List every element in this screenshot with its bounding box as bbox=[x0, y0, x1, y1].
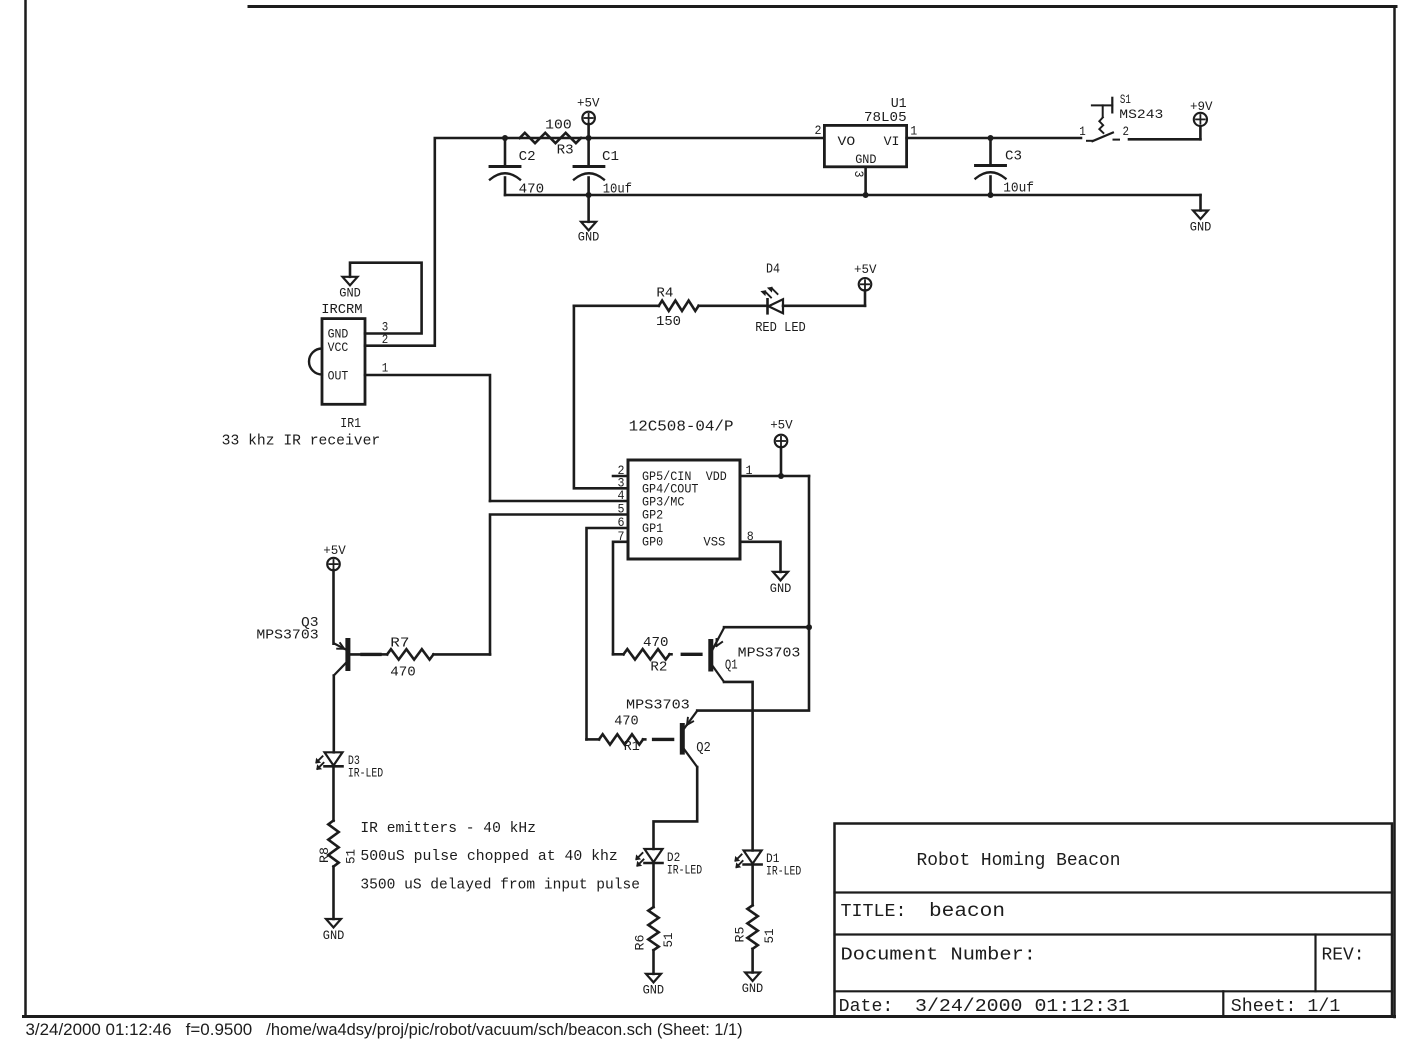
IR receiver IR1 IRCRM body bbox=[322, 319, 365, 405]
svg-text:OUT: OUT bbox=[328, 370, 349, 384]
svg-text:VSS: VSS bbox=[703, 536, 725, 550]
title block frame bbox=[835, 824, 1393, 1017]
node junction U1 pin3/ground rail bbox=[863, 192, 869, 198]
svg-text:GND: GND bbox=[855, 153, 876, 167]
wire R5 to ground bbox=[751, 949, 754, 973]
svg-text:IRCRM: IRCRM bbox=[321, 302, 362, 318]
svg-text:Sheet: 1/1: Sheet: 1/1 bbox=[1231, 997, 1341, 1017]
wire D1 to R5 bbox=[751, 865, 754, 906]
IC pin 2 stub bbox=[613, 475, 628, 478]
svg-text:R5: R5 bbox=[733, 927, 748, 943]
svg-text:500uS pulse chopped at 40 khz: 500uS pulse chopped at 40 khz bbox=[360, 849, 617, 865]
svg-text:1: 1 bbox=[910, 124, 917, 138]
wire VDD pin1 to +5V bbox=[740, 475, 809, 478]
svg-text:GND: GND bbox=[328, 328, 349, 342]
svg-text:GP2: GP2 bbox=[642, 509, 663, 523]
transistor Q1 MPS3703 bbox=[708, 642, 713, 670]
svg-text:1: 1 bbox=[1079, 125, 1086, 139]
diode D1 IR-LED bbox=[744, 851, 762, 864]
sheet border left bbox=[24, 0, 27, 1017]
svg-text:GP3/MC: GP3/MC bbox=[642, 495, 684, 509]
svg-text:12C508-04/P: 12C508-04/P bbox=[629, 419, 734, 436]
svg-text:7: 7 bbox=[618, 530, 625, 544]
resistor R4 bbox=[659, 301, 699, 311]
svg-text:VO: VO bbox=[838, 135, 856, 149]
wire +5V feed to Q1/Q2 emitters bbox=[697, 476, 809, 711]
svg-text:GND: GND bbox=[643, 984, 665, 998]
diode D4 RED LED bbox=[766, 299, 769, 313]
ground (IC VSS) bbox=[773, 572, 788, 581]
svg-text:GP0: GP0 bbox=[642, 536, 663, 550]
wire GP0 to R2 bbox=[613, 653, 624, 656]
svg-text:3500 uS delayed from input pul: 3500 uS delayed from input pulse bbox=[360, 877, 640, 893]
svg-text:TITLE:: TITLE: bbox=[841, 902, 907, 922]
power +5V (D4) bbox=[864, 290, 867, 306]
svg-text:C2: C2 bbox=[519, 149, 536, 165]
svg-text:Robot Homing Beacon: Robot Homing Beacon bbox=[917, 851, 1121, 871]
svg-text:51: 51 bbox=[661, 932, 676, 947]
wire Q2 collector to D2 bbox=[654, 767, 698, 849]
svg-text:2: 2 bbox=[382, 333, 389, 347]
svg-text:beacon: beacon bbox=[929, 900, 1005, 922]
svg-text:+9V: +9V bbox=[1190, 100, 1213, 114]
power +5V (top) bbox=[587, 124, 590, 138]
ground (below C1) bbox=[587, 195, 590, 222]
svg-text:470: 470 bbox=[614, 714, 638, 730]
svg-text:f=0.9500: f=0.9500 bbox=[186, 1021, 253, 1039]
svg-text:C1: C1 bbox=[602, 149, 619, 165]
node junction pin1/+5V bbox=[778, 473, 784, 479]
svg-text:MPS3703: MPS3703 bbox=[256, 628, 318, 644]
svg-text:+5V: +5V bbox=[323, 544, 346, 558]
svg-text:MS243: MS243 bbox=[1119, 107, 1163, 122]
transistor Q3 MPS3703 bbox=[345, 641, 350, 669]
ground (right, under +9V) bbox=[1193, 211, 1208, 220]
svg-text:1: 1 bbox=[746, 464, 753, 478]
wire ground rail drop bbox=[1199, 195, 1202, 211]
capacitor C1 bbox=[587, 138, 590, 167]
wire U1 pin1 to switch bbox=[907, 137, 1081, 140]
wire GP0 pin7 to R2 bbox=[613, 542, 628, 655]
svg-text:R1: R1 bbox=[624, 739, 640, 755]
sheet border bottom bbox=[24, 1015, 1395, 1018]
diode D2 IR-LED bbox=[645, 849, 663, 862]
svg-text:R6: R6 bbox=[633, 935, 648, 951]
svg-text:VDD: VDD bbox=[706, 470, 727, 484]
node junction C3 top bbox=[988, 135, 994, 141]
capacitor C3 bbox=[989, 138, 992, 166]
svg-text:51: 51 bbox=[762, 928, 777, 943]
wire R4 to D4 bbox=[699, 304, 768, 307]
svg-text:MPS3703: MPS3703 bbox=[738, 646, 801, 662]
wire GP4 to R4 bbox=[574, 304, 659, 307]
wire Q1 collector to D1 bbox=[724, 682, 753, 851]
wire VSS pin8 to ground bbox=[740, 542, 781, 572]
sheet border top bbox=[249, 5, 1396, 8]
svg-text:+5V: +5V bbox=[577, 97, 600, 111]
power +9V bbox=[1199, 126, 1202, 139]
svg-text:R8: R8 bbox=[317, 847, 332, 863]
svg-text:GND: GND bbox=[742, 982, 764, 996]
wire GP4/COUT pin3 to R4 bbox=[574, 306, 628, 489]
node junction C3 bottom bbox=[988, 192, 994, 198]
resistor R5 bbox=[747, 905, 757, 948]
resistor R2 bbox=[624, 649, 670, 659]
node junction Q1 emitter bbox=[806, 624, 812, 630]
svg-text:RED LED: RED LED bbox=[755, 320, 806, 336]
svg-text:51: 51 bbox=[344, 849, 359, 864]
svg-text:2: 2 bbox=[1123, 125, 1130, 139]
wire +5V rail to IRCRM VCC bbox=[365, 138, 824, 346]
svg-text:Q2: Q2 bbox=[696, 740, 711, 756]
ground (below R5) bbox=[745, 973, 760, 982]
capacitor C2 bbox=[504, 138, 507, 167]
wire IR1 pin1 OUT to GP3 bbox=[365, 375, 490, 501]
svg-text:IR1: IR1 bbox=[340, 416, 361, 432]
svg-text:+5V: +5V bbox=[854, 263, 877, 277]
svg-text:6: 6 bbox=[618, 516, 625, 530]
wire D2 to R6 bbox=[652, 863, 655, 907]
svg-text:GP1: GP1 bbox=[642, 522, 663, 536]
wire R8 to ground bbox=[332, 867, 335, 920]
node junction C2/rail bbox=[502, 135, 508, 141]
svg-text:78L05: 78L05 bbox=[864, 110, 907, 126]
svg-text:GND: GND bbox=[770, 582, 792, 596]
resistor R3 bbox=[520, 133, 581, 143]
node junction C1/rail bbox=[586, 135, 592, 141]
svg-text:D4: D4 bbox=[766, 262, 780, 278]
svg-text:1: 1 bbox=[382, 362, 389, 376]
svg-text:GND: GND bbox=[1190, 221, 1212, 235]
wire Q3 collector to D3 bbox=[332, 676, 335, 753]
svg-text:470: 470 bbox=[390, 664, 416, 680]
wire GP3/MC pin4 bbox=[490, 500, 628, 503]
wire R7 to GP2 bbox=[433, 653, 490, 656]
svg-text:R4: R4 bbox=[656, 286, 673, 302]
svg-text:IR-LED: IR-LED bbox=[667, 864, 702, 878]
svg-text:3/24/2000 01:12:46: 3/24/2000 01:12:46 bbox=[26, 1021, 172, 1039]
svg-text:33 khz IR receiver: 33 khz IR receiver bbox=[222, 434, 380, 450]
power +5V (Q3) bbox=[327, 558, 340, 571]
sheet border right bbox=[1393, 7, 1396, 1018]
svg-text:VI: VI bbox=[884, 135, 900, 149]
svg-text:3: 3 bbox=[851, 171, 865, 178]
svg-text:4: 4 bbox=[618, 489, 625, 503]
resistor R8 bbox=[328, 821, 338, 867]
svg-text:C3: C3 bbox=[1005, 149, 1022, 165]
wire D4 to +5V bbox=[783, 304, 865, 307]
svg-text:GND: GND bbox=[578, 231, 600, 245]
svg-text:Date:: Date: bbox=[839, 997, 894, 1017]
svg-text:470: 470 bbox=[643, 635, 669, 651]
wire R6 to ground bbox=[652, 950, 655, 974]
U1 pin 3 wire to ground rail bbox=[864, 167, 867, 195]
wire R2 to Q1 base (lead dash) bbox=[682, 653, 701, 656]
transistor Q2 MPS3703 bbox=[680, 726, 685, 753]
svg-text:3/24/2000 01:12:31: 3/24/2000 01:12:31 bbox=[915, 997, 1130, 1017]
svg-text:R7: R7 bbox=[390, 636, 409, 652]
svg-text:IR-LED: IR-LED bbox=[766, 865, 801, 879]
wire Q1 emitter to +5V line bbox=[724, 626, 809, 629]
svg-text:150: 150 bbox=[656, 314, 681, 330]
svg-text:GND: GND bbox=[323, 929, 345, 943]
svg-text:GND: GND bbox=[339, 287, 361, 301]
svg-text:S1: S1 bbox=[1120, 92, 1131, 107]
svg-text:VCC: VCC bbox=[328, 341, 349, 355]
wire GP2 pin5 to R7 bbox=[490, 515, 628, 655]
wire D3 to R8 bbox=[332, 766, 335, 821]
wire IR1 pin3 to ground bbox=[350, 263, 422, 334]
resistor R6 bbox=[648, 907, 658, 950]
svg-text:MPS3703: MPS3703 bbox=[626, 698, 690, 714]
svg-text:IR-LED: IR-LED bbox=[348, 767, 383, 781]
resistor R1 bbox=[599, 734, 643, 744]
svg-text:Q1: Q1 bbox=[725, 657, 738, 673]
node junction C1/ground rail bbox=[586, 192, 592, 198]
diode D3 IR-LED bbox=[325, 752, 343, 765]
svg-text:5: 5 bbox=[618, 503, 625, 517]
svg-text:+5V: +5V bbox=[770, 418, 793, 432]
svg-text:REV:: REV: bbox=[1322, 946, 1365, 966]
svg-text:R2: R2 bbox=[650, 659, 667, 675]
ground (above IR1) bbox=[343, 277, 358, 286]
svg-text:/home/wa4dsy/proj/pic/robot/va: /home/wa4dsy/proj/pic/robot/vacuum/sch/b… bbox=[266, 1021, 742, 1039]
wire GP1 pin6 to R1 bbox=[587, 528, 629, 739]
wire R1 to Q2 base (lead dash) bbox=[654, 738, 673, 741]
svg-text:Document Number:: Document Number: bbox=[841, 946, 1037, 966]
ground (below R6) bbox=[646, 974, 661, 983]
resistor R7 bbox=[387, 649, 433, 659]
ground rail (bottom of supply section) bbox=[505, 194, 1201, 197]
svg-text:10uf: 10uf bbox=[1003, 180, 1034, 196]
svg-text:100: 100 bbox=[545, 118, 572, 134]
wire switch pin2 to +9V bbox=[1129, 138, 1200, 141]
ground (below R8) bbox=[326, 919, 341, 928]
IC 12C508 body bbox=[628, 460, 740, 559]
svg-text:2: 2 bbox=[815, 124, 822, 138]
wire GP1 to R1 bbox=[587, 738, 600, 741]
power +5V (IC) bbox=[780, 447, 783, 476]
svg-text:8: 8 bbox=[747, 530, 754, 544]
svg-text:R3: R3 bbox=[557, 143, 574, 159]
svg-text:IR emitters - 40 kHz: IR emitters - 40 kHz bbox=[360, 821, 536, 837]
